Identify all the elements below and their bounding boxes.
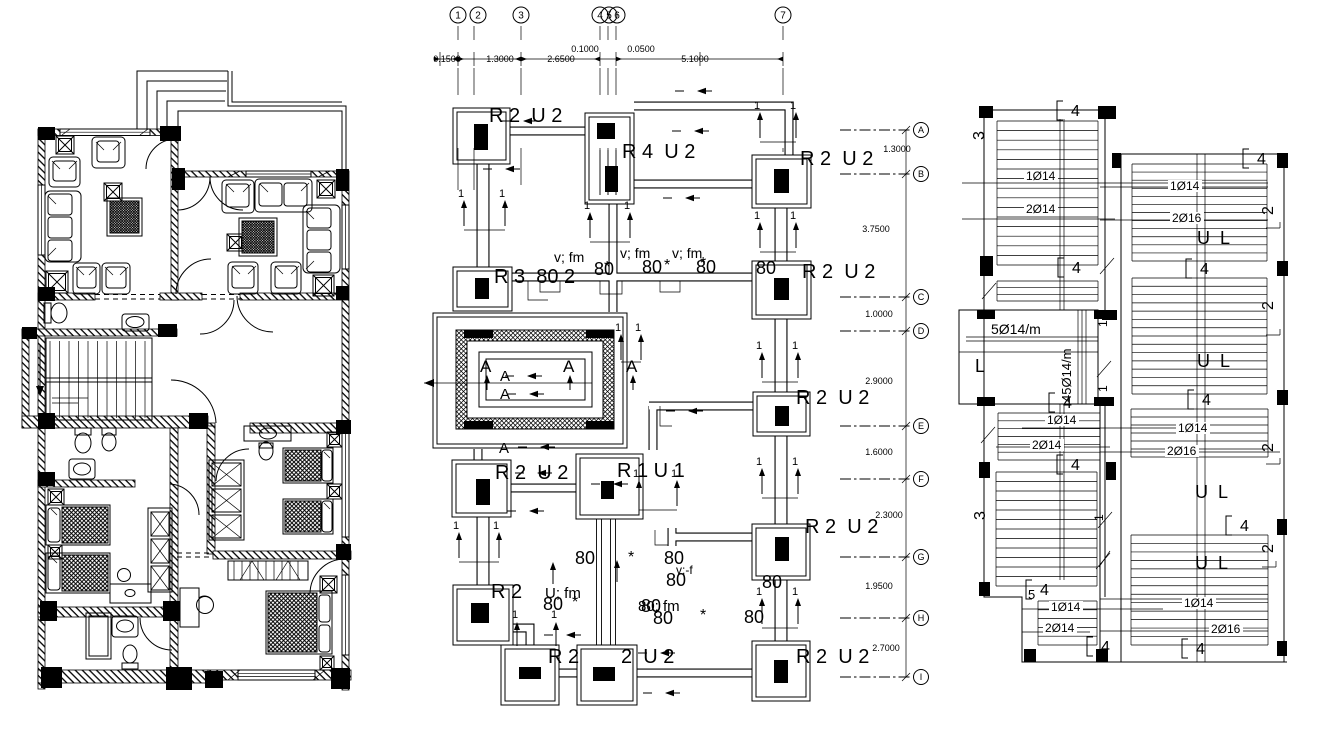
svg-text:4: 4 [1101,639,1110,656]
majlis corner table2 [313,275,334,296]
detail arrow [663,195,700,201]
svg-text:2.6500: 2.6500 [547,54,575,64]
wall top majlis [177,171,348,177]
grid dashed lines top [457,26,459,190]
door arc majlis south [237,296,273,332]
vertical dim chain [905,130,907,677]
svg-text:*: * [572,594,578,611]
angle bracket [1266,222,1280,228]
arrow pair [756,340,801,382]
bidet bath2 [102,428,116,451]
detail arrow [591,481,628,487]
wall left exterior [38,129,45,689]
beam network [478,106,789,673]
svg-text:0.0500: 0.0500 [627,44,655,54]
grid bubble 6 [609,7,625,23]
bracket 5 4 [1026,580,1049,599]
slab column [977,310,995,319]
svg-text:1: 1 [615,322,621,334]
svg-text:4: 4 [1257,151,1266,168]
column block [38,127,55,140]
stair shaft corner block [586,330,614,338]
slab column [977,397,995,406]
column block [205,671,223,688]
chair top [92,137,125,168]
svg-text:4: 4 [1040,582,1049,599]
corner table lamp [56,136,74,154]
column block [336,286,349,300]
svg-text:L: L [975,356,985,376]
column block [163,601,180,621]
leader lines [962,182,1268,184]
svg-text:U L: U L [1195,482,1228,502]
svg-text:1: 1 [458,188,464,200]
shower [86,613,111,659]
svg-text:A: A [499,440,509,457]
bracket 4 [1182,639,1205,658]
majlis chair1 [228,262,258,294]
nightstand b1-2 [48,545,62,559]
desk b3 [180,588,214,627]
slab column [979,582,990,596]
bracket 4 [1243,149,1266,168]
dresser b1 [110,569,151,604]
side table [104,183,122,201]
grid bubble F [840,478,912,480]
wall between living rooms [171,140,178,300]
slab column [979,106,993,118]
slab column [1277,261,1288,276]
column H1 [453,585,513,645]
dimension line top [434,58,783,60]
column I1 [501,645,559,705]
grid bubble A [840,129,912,131]
sofa tick marks [48,142,330,563]
grid bubble G [840,556,912,558]
svg-text:3: 3 [972,511,989,520]
detail arrow [507,508,544,514]
grid bubble 2 [470,7,486,23]
svg-text:3: 3 [971,131,988,140]
svg-text:45Ø14/m: 45Ø14/m [1059,349,1074,402]
svg-text:80; fm: 80; fm [638,598,680,615]
wall bedroom1 top [38,480,135,487]
svg-text:R 2 U 2: R 2 U 2 [495,462,568,484]
svg-text:7: 7 [780,11,786,22]
svg-text:1: 1 [1092,514,1106,521]
window bottom bedroom3 [228,670,325,680]
vertical bar left bay [1059,119,1061,310]
grid bubble 1 [450,7,466,23]
column block [40,601,57,621]
column block [336,544,351,560]
rebar label [1024,170,1058,182]
svg-text:1.3000: 1.3000 [486,54,514,64]
landing box [959,310,1098,404]
door arc bath [140,618,172,650]
svg-text:H: H [918,613,925,623]
arrow pair [756,456,801,498]
svg-text:R 2 U 2: R 2 U 2 [796,646,869,668]
svg-text:R 2 U 2: R 2 U 2 [796,387,869,409]
svg-text:6: 6 [614,11,620,22]
svg-text:R 3 80 2: R 3 80 2 [494,266,575,288]
stair shaft corner block [464,330,493,338]
slab outline [984,110,1287,662]
svg-text:1.0000: 1.0000 [865,309,893,319]
grid bubble B [840,173,912,175]
door arc bedroom2 [216,449,249,481]
majlis chair2 [271,262,301,294]
svg-text:C: C [918,292,925,302]
svg-text:*: * [604,259,610,276]
vanity hall2 [244,426,291,441]
svg-text:*: * [700,255,706,272]
svg-text:A: A [563,357,575,376]
svg-text:R 2: R 2 [548,646,579,668]
column A1 [453,108,510,164]
svg-text:80: 80 [756,258,776,278]
toilet hall2 [259,442,273,460]
svg-text:G: G [917,552,924,562]
stair shaft hatch band [456,330,614,429]
grid bubble C [840,296,912,298]
rebar label [1168,180,1202,192]
rebar block R4 [1131,535,1268,645]
arrow pair [754,100,799,142]
svg-text:D: D [918,326,925,336]
bed b1-2 [46,553,110,593]
svg-text:v; fm: v; fm [554,249,584,265]
svg-text:3: 3 [518,11,524,22]
majlis side table [227,234,244,251]
svg-text:U L: U L [1197,228,1230,248]
svg-text:4: 4 [1071,457,1080,474]
rebar label [1045,414,1079,426]
wall below stair [22,416,208,428]
wall bedroom1 bottom [38,607,179,617]
tick slash [1100,258,1114,274]
slab column [1094,397,1114,406]
arrow pair [458,188,508,230]
arrow pair [453,520,502,562]
wall stair top [22,329,177,336]
majlis sofa right [303,205,340,273]
detail arrow [515,470,552,476]
svg-text:5Ø14/m: 5Ø14/m [991,321,1041,337]
svg-text:1.9500: 1.9500 [865,581,893,591]
column block [38,413,55,429]
door arc corridor [171,380,216,423]
rebar block L3 [998,413,1100,460]
dim arrowheads [452,57,458,62]
bed b2-1 [283,448,333,483]
nightstand b3-2 [320,656,334,670]
arrow pair [754,210,799,252]
svg-text:2Ø14: 2Ø14 [1045,621,1075,635]
svg-text:2.3000: 2.3000 [875,510,903,520]
rebar label [1182,597,1216,609]
svg-text:2.7000: 2.7000 [872,643,900,653]
sink hall [122,314,149,331]
svg-text:2: 2 [1260,206,1277,215]
svg-text:2: 2 [1260,301,1277,310]
stair shaft corner block [586,421,614,429]
svg-text:U L: U L [1197,351,1230,371]
svg-text:2: 2 [475,11,481,22]
svg-text:4: 4 [1071,103,1080,120]
rebar label [1024,203,1058,215]
bed b1-1 [46,505,110,545]
grid bubble 7 [775,7,791,23]
svg-text:1: 1 [512,609,518,621]
svg-text:2Ø16: 2Ø16 [1167,444,1197,458]
detail arrow [675,88,712,94]
rebar block R1 [1132,164,1267,261]
svg-text:R 2: R 2 [491,581,522,603]
column block [336,420,351,434]
rebar label [1170,212,1204,224]
slab column [1277,519,1287,535]
svg-text:1: 1 [756,456,762,468]
window right bedroom2 [342,433,349,537]
svg-text:1: 1 [453,520,459,532]
svg-text:A: A [626,357,638,376]
column G7 [752,524,810,580]
window top living room [60,129,150,136]
single arrows [514,622,520,646]
arrow pair [633,468,680,510]
wall south living rooms [38,293,95,300]
svg-text:R 2 U 2: R 2 U 2 [489,105,562,127]
column block [38,472,55,486]
bracket 4 [1058,258,1081,277]
majlis sofa a [222,180,254,213]
tick slash [1097,361,1111,377]
window right majlis [342,205,349,269]
tick slash [1096,553,1110,569]
column block [22,327,37,339]
column C1 [453,267,512,311]
svg-text:80: 80 [762,572,782,592]
column block [160,126,181,141]
vertical bar right bay [1196,154,1198,662]
wardrobe b2 [209,460,244,540]
grid bubble 5 [601,7,617,23]
stair shaft corner block [464,421,493,429]
slab column [980,256,993,276]
svg-text:2Ø16: 2Ø16 [1211,622,1241,636]
column block [158,324,177,337]
svg-text:1: 1 [792,456,798,468]
door arc majlis [177,177,210,210]
detail arrow [483,166,520,172]
slab column [1098,106,1116,119]
arrow pair [756,586,801,628]
svg-text:4: 4 [1072,260,1081,277]
landing vertical bars [1077,310,1079,404]
svg-text:*: * [700,607,706,624]
majlis sofa b [255,179,312,212]
rebar label [1165,445,1199,457]
bracket 4 [1087,637,1110,656]
svg-text:1: 1 [499,188,505,200]
grid bubble 3 [513,7,529,23]
svg-text:4: 4 [1196,641,1205,658]
stair shaft outer [433,313,627,448]
rebar label [1043,622,1077,634]
tick slash [981,427,995,443]
svg-text:1: 1 [792,340,798,352]
window right bedroom [342,575,349,655]
double bed b3 [266,591,332,654]
tick slash [982,283,996,299]
beam jogs row C [528,281,680,300]
tick slash [1098,512,1112,528]
rebar block L1 [997,121,1098,265]
slab column [1096,649,1108,662]
bracket 4 [1057,101,1080,120]
svg-text:1: 1 [792,586,798,598]
slab column [1277,390,1288,405]
svg-text:R 2 U 2: R 2 U 2 [802,261,875,283]
svg-text:1: 1 [1096,385,1110,392]
svg-text:1: 1 [756,340,762,352]
svg-text:5: 5 [1028,587,1035,602]
door arc hall west [176,259,211,294]
wall top living room [38,129,180,136]
rebar block L2 [997,281,1098,301]
svg-text:2.9000: 2.9000 [865,376,893,386]
corner table lamp2 [46,271,68,293]
column E7 [753,392,810,436]
svg-text:*: * [628,549,634,566]
column block [189,413,208,429]
grid bubble 4 [592,7,608,23]
svg-text:1.3000: 1.3000 [883,144,911,154]
svg-text:R 1 U 1: R 1 U 1 [617,460,685,482]
rebar label [1209,623,1243,635]
column block [166,667,192,690]
svg-text:1: 1 [635,322,641,334]
wall stair left [22,329,29,428]
door arc majlis2 [210,177,243,210]
detail arrow [643,690,680,696]
svg-text:3.7500: 3.7500 [862,224,890,234]
bracket 4 [1226,516,1249,535]
grid bubble E [840,425,912,427]
column block [38,287,55,301]
nightstand b1 [48,489,64,505]
section line A-A [424,382,592,384]
svg-text:5: 5 [978,257,993,264]
svg-text:1: 1 [754,210,760,222]
nightstand b2-2 [327,484,342,499]
toilet bath2 [75,428,91,453]
svg-text:2: 2 [1260,443,1277,452]
slab column [1094,310,1114,319]
svg-text:80: 80 [744,607,764,627]
svg-text:1: 1 [624,200,630,212]
svg-text:2: 2 [1260,544,1277,553]
detail arrow [544,632,581,638]
armchair [49,157,80,187]
column C7 [752,261,811,319]
wall right exterior [342,171,349,690]
svg-text:1Ø14: 1Ø14 [1051,600,1081,614]
detail arrow [672,128,709,134]
cabinet corridor [148,508,172,592]
svg-text:I: I [920,672,923,682]
column F1 [452,460,511,517]
coffee table living [107,198,142,236]
sink bath3 [112,616,138,637]
chair bottom1 [73,263,100,294]
toilet hall [44,303,67,323]
bracket 4 [1186,259,1209,278]
svg-text:1: 1 [584,200,590,212]
canopy edge double line [178,71,346,171]
svg-text:2Ø16: 2Ø16 [1172,211,1202,225]
svg-text:4: 4 [1240,518,1249,535]
svg-text:v;-f: v;-f [676,563,693,577]
svg-text:1: 1 [1096,320,1110,327]
svg-text:R 2 U 2: R 2 U 2 [805,516,878,538]
svg-text:1: 1 [790,100,796,112]
grid bubble D [840,330,912,332]
grid bubble I [840,676,912,678]
window top majlis [228,171,330,177]
svg-text:1: 1 [493,520,499,532]
svg-text:B: B [918,169,924,179]
svg-text:80: 80 [575,548,595,568]
rebar block L4 [996,472,1097,586]
svg-text:4: 4 [1202,392,1211,409]
svg-text:4: 4 [1200,261,1209,278]
sink bath2 [69,459,95,479]
svg-text:U L: U L [1195,553,1228,573]
dashed opening corridor [95,294,160,296]
column F2 [576,454,643,519]
bed b2-2 [283,499,333,534]
column block [172,168,185,190]
wall bottom left [38,670,208,683]
svg-text:5.1000: 5.1000 [681,54,709,64]
svg-text:A: A [918,125,924,135]
slab column [1106,462,1116,480]
svg-text:0.1500: 0.1500 [433,54,461,64]
column A456 [585,113,634,204]
column I2 [577,645,637,705]
slab column [1024,649,1036,662]
svg-text:4: 4 [1063,395,1072,412]
grid dash overlay col456 [600,150,616,195]
svg-text:1Ø14: 1Ø14 [1178,421,1208,435]
svg-text:80: 80 [642,257,662,277]
svg-text:2Ø14: 2Ø14 [1026,202,1056,216]
detail arrow [501,118,538,124]
arrow pair [615,322,644,362]
door arc hall [200,300,234,334]
bracket 4 [1049,393,1072,412]
angle bracket [1266,329,1280,335]
column block [336,169,349,191]
grid bubble H [840,617,912,619]
svg-text:1: 1 [754,100,760,112]
shelf b3 [228,561,308,580]
svg-text:*: * [664,257,670,274]
svg-text:1.6000: 1.6000 [865,447,893,457]
